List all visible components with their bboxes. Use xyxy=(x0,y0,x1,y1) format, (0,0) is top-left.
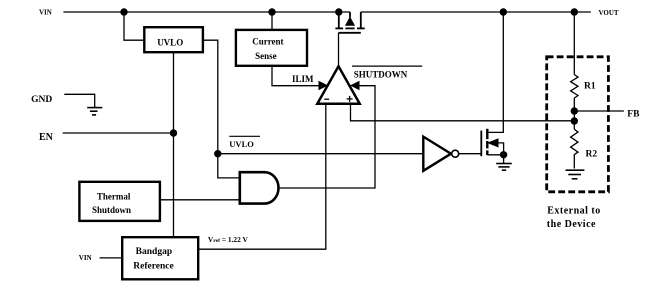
svg-text:UVLO: UVLO xyxy=(229,139,254,149)
svg-text:GND: GND xyxy=(31,95,52,105)
svg-text:R1: R1 xyxy=(584,82,596,92)
svg-text:ILIM: ILIM xyxy=(292,74,314,84)
svg-text:R2: R2 xyxy=(586,149,598,159)
svg-text:External to: External to xyxy=(547,206,601,217)
svg-text:the Device: the Device xyxy=(547,219,596,230)
svg-text:EN: EN xyxy=(39,132,54,143)
svg-text:Reference: Reference xyxy=(133,261,173,271)
svg-text:VIN: VIN xyxy=(39,8,52,16)
svg-text:Current: Current xyxy=(252,37,283,47)
svg-text:Bandgap: Bandgap xyxy=(136,247,172,257)
svg-text:FB: FB xyxy=(627,109,640,119)
svg-text:Thermal: Thermal xyxy=(97,192,131,202)
svg-text:UVLO: UVLO xyxy=(157,37,183,47)
svg-text:VIN: VIN xyxy=(79,254,92,262)
svg-text:SHUTDOWN: SHUTDOWN xyxy=(354,69,408,79)
svg-text:VOUT: VOUT xyxy=(599,9,619,17)
svg-text:Sense: Sense xyxy=(255,51,277,61)
svg-text:Shutdown: Shutdown xyxy=(92,205,131,215)
